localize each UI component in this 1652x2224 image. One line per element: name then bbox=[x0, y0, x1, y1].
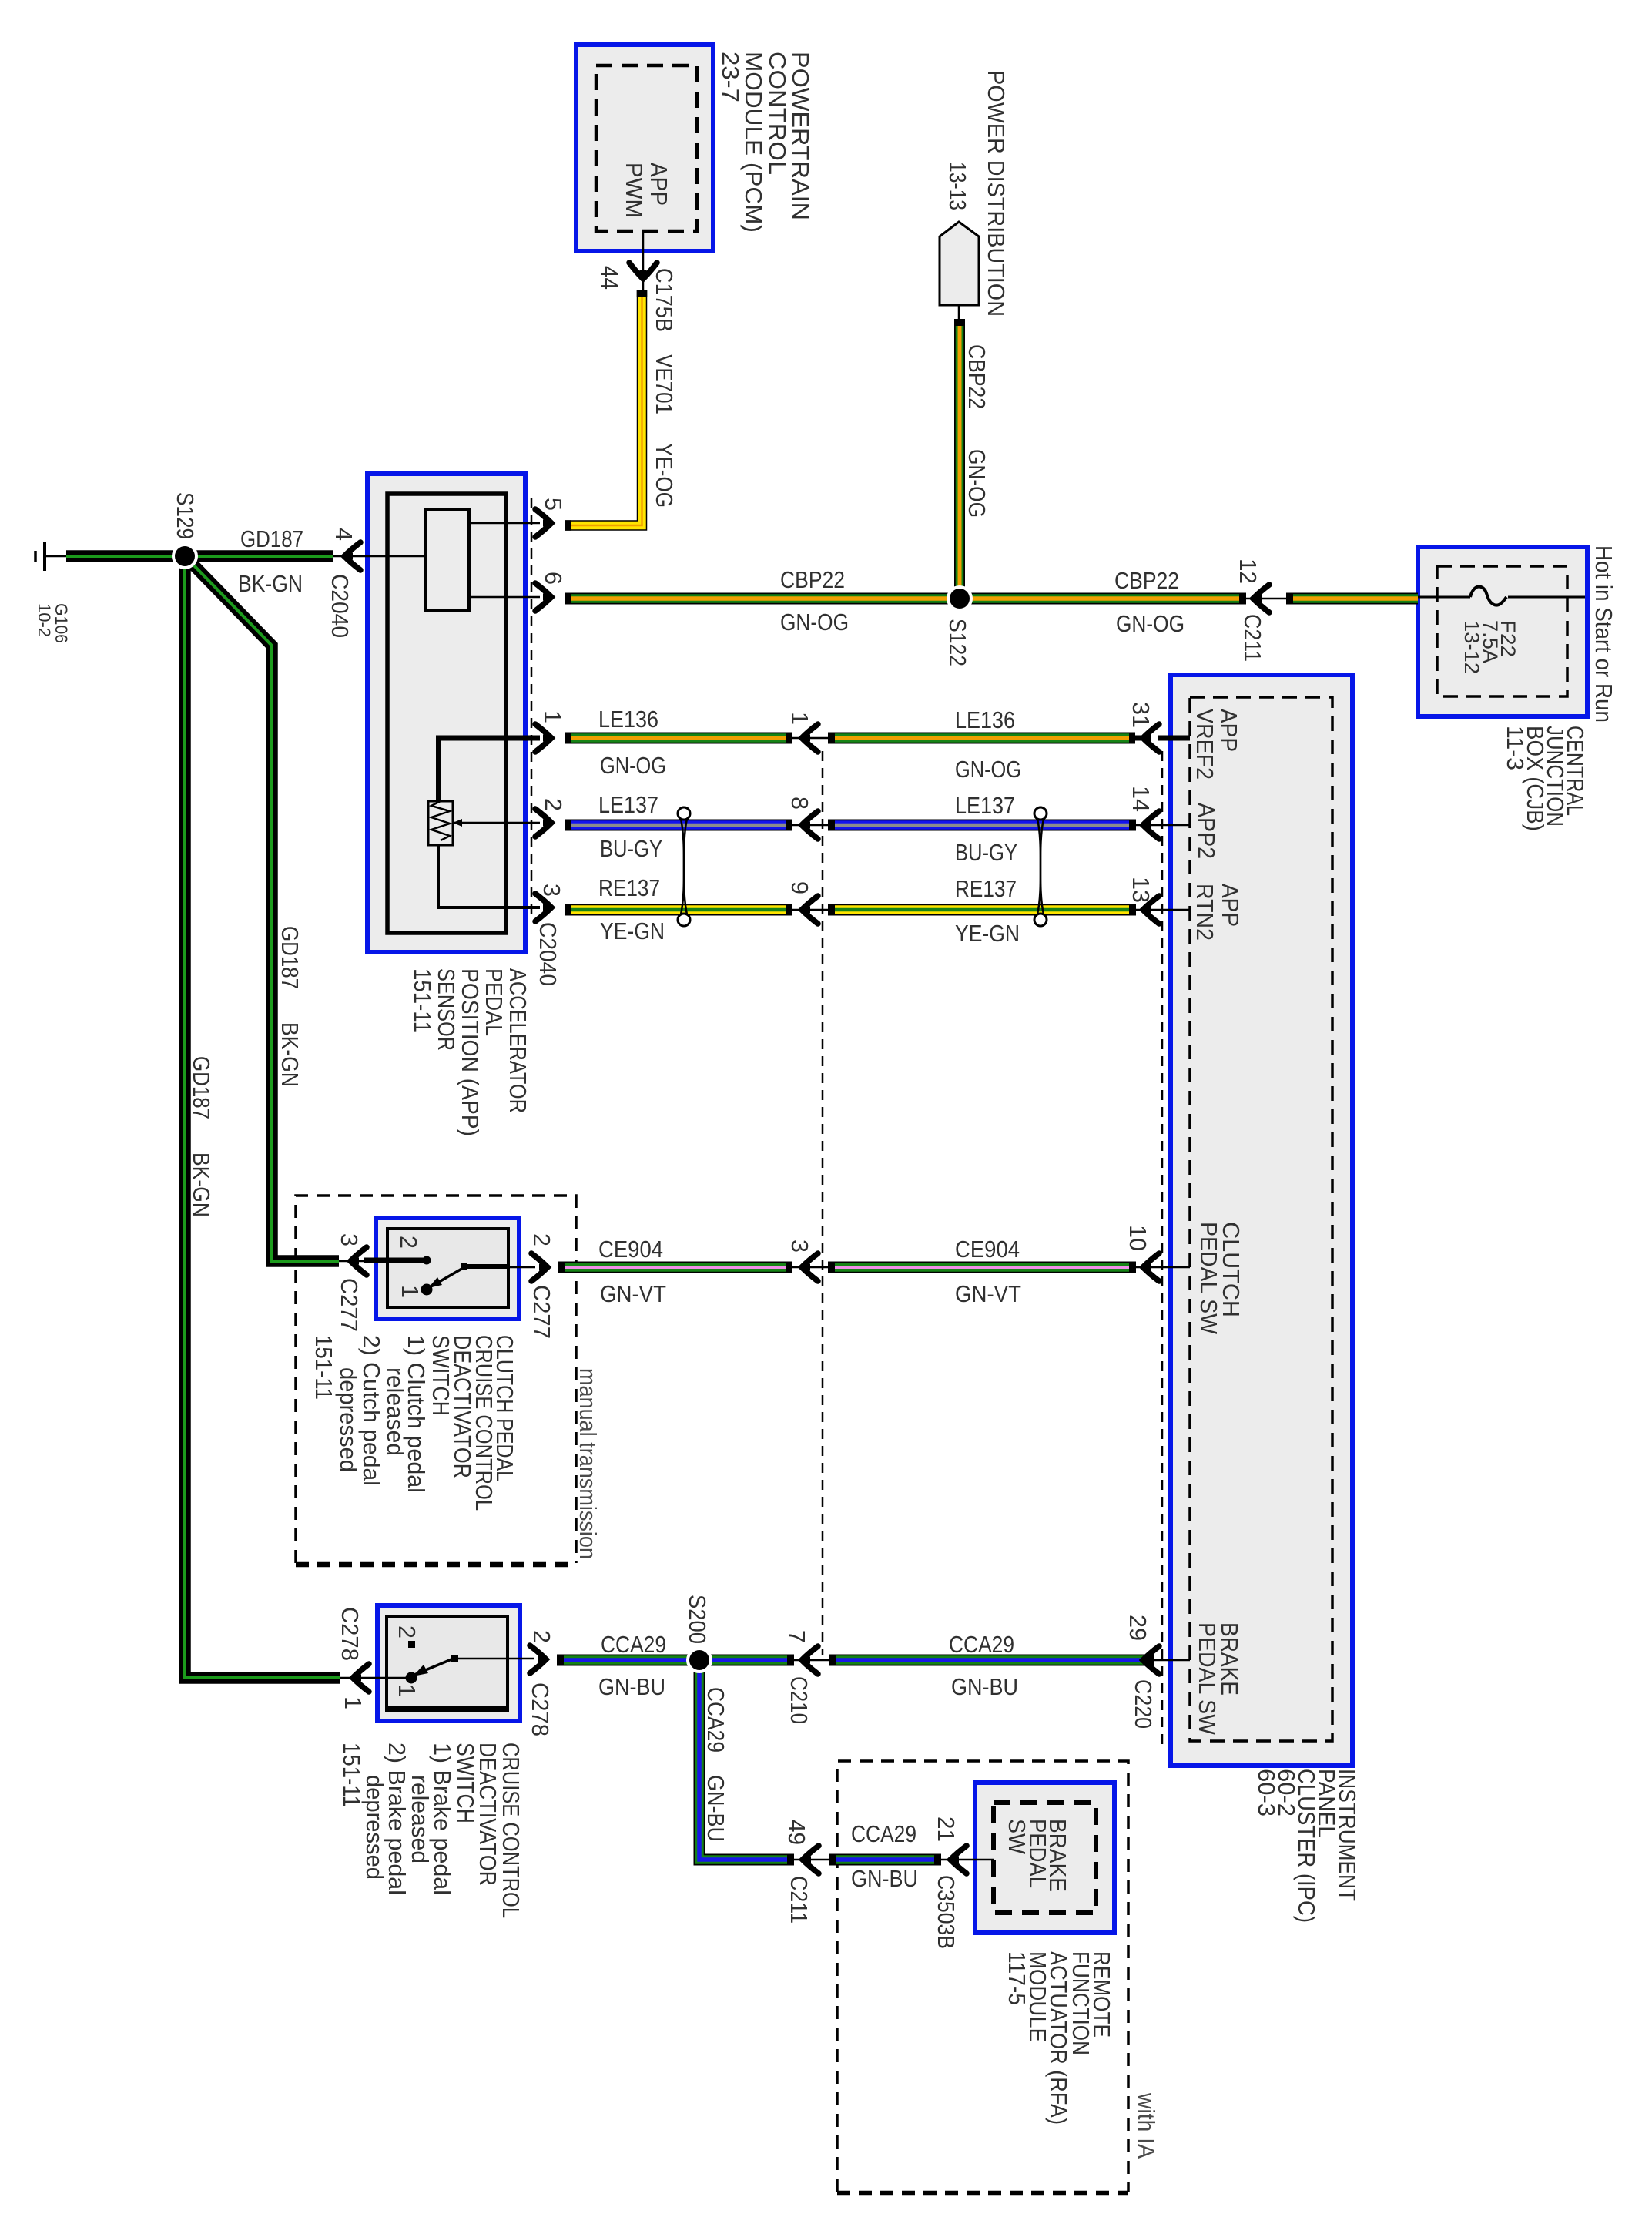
svg-text:GN-BU: GN-BU bbox=[598, 1674, 665, 1700]
svg-text:POSITION (APP): POSITION (APP) bbox=[457, 968, 483, 1136]
svg-text:60-3: 60-3 bbox=[1253, 1769, 1279, 1816]
label: LE136 GN-OG left bbox=[598, 706, 666, 779]
svg-text:PEDAL: PEDAL bbox=[481, 968, 507, 1036]
svg-text:BU-GY: BU-GY bbox=[600, 836, 662, 862]
svg-text:VE701: VE701 bbox=[651, 354, 677, 414]
label: IPC signal names bbox=[1191, 709, 1244, 1735]
label: C210 pins 1 8 9 3 7 and C210 bbox=[783, 712, 813, 1724]
connector arrow IPC pin 13 bbox=[1133, 896, 1190, 924]
wire RE137 YE-GN left segment (APP 3 to C210) bbox=[565, 904, 792, 916]
twisted pair symbol left bbox=[678, 807, 690, 926]
svg-text:PWM: PWM bbox=[621, 163, 647, 218]
svg-text:23-7: 23-7 bbox=[717, 52, 743, 102]
label: pin 12 C211 bbox=[1235, 559, 1265, 662]
label: clutch switch pins 3 C277 2 1 2 C277 bbox=[336, 1233, 555, 1339]
APP sensor internal wires bbox=[367, 523, 540, 909]
svg-text:BK-GN: BK-GN bbox=[276, 1022, 303, 1087]
svg-text:3: 3 bbox=[538, 884, 565, 897]
wire CCA29 GN-BU (C210 to IPC 29) bbox=[829, 1655, 1154, 1666]
svg-text:GD187: GD187 bbox=[276, 926, 303, 989]
svg-text:YE-GN: YE-GN bbox=[955, 921, 1020, 947]
APP sensor box: ACCELERATOR PEDAL POSITION SENSOR bbox=[367, 474, 525, 952]
connector arrow C210 pin 3 bbox=[789, 1253, 828, 1281]
svg-text:13: 13 bbox=[1128, 877, 1154, 903]
connector arrow C2040 pin 5 bbox=[535, 509, 551, 537]
svg-text:C211: C211 bbox=[1239, 614, 1265, 662]
svg-text:C2040: C2040 bbox=[327, 574, 353, 638]
connector arrow C210 pin 9 bbox=[789, 896, 828, 924]
svg-text:1: 1 bbox=[394, 1684, 420, 1697]
svg-text:CCA29: CCA29 bbox=[949, 1632, 1014, 1658]
SW2 contacts and lever bbox=[365, 1641, 534, 1684]
svg-text:RTN2: RTN2 bbox=[1191, 884, 1218, 941]
svg-text:S200: S200 bbox=[684, 1595, 710, 1644]
PCM pin 44 lead and connector arrow C175B bbox=[629, 231, 657, 290]
label: CBP22 GN-OG left of S122 bbox=[780, 567, 849, 636]
svg-text:CBP22: CBP22 bbox=[963, 344, 990, 409]
label: splice S200 and down leg CCA29 GN-BU bbox=[684, 1595, 729, 1842]
CJB: CENTRAL JUNCTION BOX bbox=[1418, 547, 1587, 716]
svg-text:CE904: CE904 bbox=[955, 1236, 1020, 1263]
label: CLUTCH PEDAL CRUISE CONTROL DEACTIVATOR SWITCH block bbox=[310, 1335, 518, 1511]
svg-text:12: 12 bbox=[1235, 559, 1261, 584]
connector arrow C210 pin 1 bbox=[789, 724, 828, 752]
svg-text:POWER DISTRIBUTION: POWER DISTRIBUTION bbox=[983, 70, 1009, 317]
svg-text:SW: SW bbox=[1004, 1819, 1030, 1854]
svg-text:44: 44 bbox=[596, 266, 622, 290]
svg-text:RE137: RE137 bbox=[598, 875, 660, 901]
svg-text:13-12: 13-12 bbox=[1460, 620, 1483, 674]
svg-text:GN-BU: GN-BU bbox=[702, 1775, 729, 1842]
svg-text:manual transmission: manual transmission bbox=[575, 1368, 601, 1559]
label: pin 44 and C175B VE701 YE-OG bbox=[596, 266, 677, 508]
svg-text:GN-VT: GN-VT bbox=[955, 1281, 1021, 1307]
label: pin 49 C211 bbox=[783, 1820, 812, 1924]
svg-text:C210: C210 bbox=[786, 1676, 812, 1724]
svg-text:CBP22: CBP22 bbox=[780, 567, 845, 593]
connector arrow C2040 pin 2 bbox=[535, 809, 551, 837]
connector arrow C211 pin 49 bbox=[791, 1846, 829, 1873]
wire CCA29 GN-BU (cruise switch 2 through S200 to C210 7) bbox=[557, 1655, 794, 1666]
wire LE136 GN-OG left segment (APP 1 to C210) bbox=[565, 733, 792, 744]
svg-text:SENSOR: SENSOR bbox=[433, 968, 459, 1051]
svg-text:C220: C220 bbox=[1130, 1679, 1156, 1729]
svg-text:CCA29: CCA29 bbox=[601, 1632, 666, 1658]
connector arrow C278 pin 1 bbox=[340, 1664, 369, 1692]
svg-text:PEDAL SW: PEDAL SW bbox=[1195, 1222, 1221, 1334]
svg-text:2: 2 bbox=[395, 1236, 421, 1249]
label: GD187 BK-GN horizontal wire bbox=[238, 526, 303, 597]
svg-text:151-11: 151-11 bbox=[310, 1335, 337, 1400]
svg-text:YE-OG: YE-OG bbox=[651, 443, 677, 508]
svg-text:11-3: 11-3 bbox=[1502, 726, 1528, 770]
svg-text:10-2: 10-2 bbox=[35, 603, 54, 637]
wire CBP22 GN-OG vertical (power distribution to S122) bbox=[954, 319, 965, 599]
svg-text:3: 3 bbox=[786, 1239, 813, 1253]
svg-text:LE137: LE137 bbox=[598, 792, 658, 818]
label: REMOTE FUNCTION ACTUATOR (RFA) MODULE 117-5 bbox=[1004, 1951, 1114, 2125]
svg-text:29: 29 bbox=[1124, 1615, 1151, 1641]
svg-text:LE137: LE137 bbox=[955, 793, 1015, 819]
label: pin 21 C3503B bbox=[933, 1816, 959, 1949]
label: CBP22 GN-OG vertical wire bbox=[963, 344, 990, 518]
svg-text:BK-GN: BK-GN bbox=[238, 571, 303, 597]
svg-text:MODULE (PCM): MODULE (PCM) bbox=[740, 52, 766, 233]
connector arrow C211 pin 12 bbox=[1243, 585, 1286, 612]
label: LE136 GN-OG right bbox=[955, 707, 1021, 783]
connector C210 dashed line bbox=[822, 751, 824, 1655]
svg-text:YE-GN: YE-GN bbox=[600, 918, 665, 944]
svg-text:CCA29: CCA29 bbox=[851, 1821, 916, 1847]
RFA: REMOTE FUNCTION ACTUATOR module box bbox=[975, 1783, 1114, 1933]
svg-text:C2040: C2040 bbox=[534, 922, 561, 986]
label: CCA29 GN-BU bottom bbox=[851, 1821, 918, 1892]
connector arrow C210 pin 7 bbox=[791, 1646, 829, 1674]
wire GD187 BK-GN (S129 diagonal down to clutch switch C277 3) bbox=[190, 562, 339, 1261]
connector arrow C2040 pin 1 bbox=[535, 724, 551, 752]
wire GD187 BK-GN (S129 down to cruise switch C278 1) bbox=[185, 562, 340, 1678]
svg-text:8: 8 bbox=[786, 797, 813, 810]
svg-text:ACCELERATOR: ACCELERATOR bbox=[504, 968, 531, 1113]
svg-text:31: 31 bbox=[1128, 702, 1154, 728]
svg-text:S122: S122 bbox=[944, 619, 970, 666]
wire LE136 GN-OG right segment (C210 to IPC 31) bbox=[828, 733, 1135, 744]
label: CE904 GN-VT right bbox=[955, 1236, 1021, 1307]
connector arrow C3503B pin 21 bbox=[938, 1846, 994, 1873]
svg-text:BK-GN: BK-GN bbox=[188, 1152, 214, 1217]
svg-text:CONTROL: CONTROL bbox=[764, 52, 790, 175]
svg-text:21: 21 bbox=[933, 1816, 959, 1842]
connector arrow IPC pin 14 bbox=[1133, 811, 1190, 839]
svg-text:GN-OG: GN-OG bbox=[600, 753, 666, 779]
svg-text:GN-BU: GN-BU bbox=[951, 1674, 1018, 1700]
svg-text:APP: APP bbox=[1217, 884, 1243, 927]
svg-text:POWERTRAIN: POWERTRAIN bbox=[787, 52, 813, 220]
label: GD187 BK-GN on diagonal branch bbox=[276, 926, 303, 1087]
label: CRUISE CONTROL DEACTIVATOR SWITCH block bbox=[338, 1743, 524, 1918]
svg-text:LE136: LE136 bbox=[598, 706, 658, 733]
svg-text:GN-OG: GN-OG bbox=[955, 756, 1021, 783]
connector arrow C210 pin 8 bbox=[789, 811, 828, 839]
label: APP PWM inside PCM bbox=[621, 163, 672, 218]
cruise control deactivator switch SW2 box bbox=[377, 1605, 520, 1721]
label: ACCELERATOR PEDAL POSITION (APP) SENSOR 151-11 bbox=[409, 968, 531, 1136]
splice S129 bbox=[172, 543, 198, 569]
label: IPC pins 31 14 13 10 29 C220 bbox=[1124, 702, 1156, 1729]
svg-text:C211: C211 bbox=[786, 1876, 812, 1924]
label: POWER DISTRIBUTION 13-13 bbox=[944, 70, 1009, 317]
svg-text:GD187: GD187 bbox=[240, 526, 303, 552]
svg-text:2: 2 bbox=[528, 1630, 555, 1643]
connector arrow C2040 pin 3 bbox=[535, 894, 551, 921]
label: APP sensor pins 5 6 1 2 3 and C2040 bbox=[534, 498, 566, 986]
IPC: INSTRUMENT PANEL CLUSTER box bbox=[1171, 675, 1352, 1766]
label: INSTRUMENT PANEL CLUSTER (IPC) 60-2 60-3 bbox=[1253, 1769, 1360, 1923]
label: GD187 BK-GN on long vertical branch bbox=[188, 1056, 214, 1217]
wire CCA29 GN-BU (C211 to C3503B 21) bbox=[829, 1854, 941, 1866]
connector C2040 dashed line bbox=[531, 498, 533, 917]
svg-text:BU-GY: BU-GY bbox=[955, 840, 1017, 866]
label: RE137 YE-GN right bbox=[955, 876, 1020, 947]
fuse F22 7.5A inside CJB bbox=[1418, 587, 1585, 605]
wire LE137 BU-GY right segment (C210 to IPC 14) bbox=[828, 820, 1136, 831]
svg-text:GN-OG: GN-OG bbox=[963, 449, 990, 518]
svg-text:LE136: LE136 bbox=[955, 707, 1015, 733]
svg-text:2: 2 bbox=[394, 1625, 420, 1639]
label: CE904 GN-VT left bbox=[598, 1236, 666, 1307]
svg-text:117-5: 117-5 bbox=[1004, 1951, 1030, 2005]
svg-text:10: 10 bbox=[1124, 1225, 1151, 1251]
svg-text:3: 3 bbox=[336, 1233, 362, 1246]
connector arrow IPC pin 29 (C220) bbox=[1143, 1646, 1190, 1674]
wire LE137 BU-GY left segment (APP 2 to C210) bbox=[565, 820, 792, 831]
potentiometer R1 inside APP sensor bbox=[428, 801, 462, 845]
svg-text:2: 2 bbox=[540, 798, 566, 811]
connector arrow C277 pin 3 bbox=[339, 1247, 367, 1275]
svg-text:with IA: with IA bbox=[1133, 2092, 1159, 2159]
twisted pair symbol right bbox=[1034, 807, 1047, 926]
svg-text:C278: C278 bbox=[337, 1607, 363, 1661]
svg-text:5: 5 bbox=[540, 498, 566, 511]
svg-text:SWITCH: SWITCH bbox=[427, 1335, 454, 1416]
connector arrow C2040 pin 4 bbox=[333, 542, 367, 570]
connector arrow C278 pin 2 bbox=[530, 1645, 546, 1673]
label: POWERTRAIN CONTROL MODULE (PCM) 23-7 bbox=[717, 52, 813, 233]
svg-text:GN-VT: GN-VT bbox=[600, 1281, 666, 1307]
svg-text:1: 1 bbox=[786, 712, 813, 725]
with IA dashed box bbox=[837, 1761, 1128, 2193]
svg-text:RE137: RE137 bbox=[955, 876, 1017, 902]
label: RE137 YE-GN left bbox=[598, 875, 665, 944]
svg-text:SWITCH: SWITCH bbox=[452, 1743, 478, 1823]
svg-text:CRUISE CONTROL: CRUISE CONTROL bbox=[498, 1743, 524, 1918]
svg-text:S129: S129 bbox=[172, 492, 198, 539]
svg-text:APP2: APP2 bbox=[1193, 803, 1219, 859]
svg-text:7: 7 bbox=[783, 1630, 809, 1643]
label: CCA29 GN-BU left bbox=[598, 1632, 666, 1700]
svg-text:PEDAL SW: PEDAL SW bbox=[1194, 1622, 1220, 1735]
svg-text:APP: APP bbox=[1215, 709, 1242, 752]
clutch pedal cruise control deactivator switch SW1 box bbox=[376, 1218, 519, 1319]
label: CBP22 GN-OG right of S122 bbox=[1114, 568, 1185, 637]
svg-text:2) Cutch pedal: 2) Cutch pedal bbox=[358, 1335, 384, 1486]
connector arrow C2040 pin 6 bbox=[535, 583, 551, 611]
svg-text:GN-OG: GN-OG bbox=[780, 609, 849, 636]
PCM U1: POWERTRAIN CONTROL MODULE box bbox=[576, 45, 713, 251]
svg-text:VREF2: VREF2 bbox=[1191, 709, 1218, 780]
svg-text:1: 1 bbox=[539, 710, 565, 723]
svg-text:GN-OG: GN-OG bbox=[1116, 611, 1185, 637]
svg-text:1: 1 bbox=[397, 1285, 423, 1298]
label: ground G106 10-2 bbox=[35, 603, 71, 643]
svg-text:APP: APP bbox=[645, 163, 672, 206]
label: CCA29 GN-BU right bbox=[949, 1632, 1018, 1700]
svg-text:GN-BU: GN-BU bbox=[851, 1866, 918, 1892]
svg-text:depressed: depressed bbox=[361, 1775, 387, 1880]
wire CE904 GN-VT left segment (clutch switch to C210 3) bbox=[558, 1262, 792, 1273]
svg-text:1: 1 bbox=[340, 1696, 366, 1709]
connector arrow IPC pin 10 bbox=[1133, 1253, 1190, 1281]
connector arrow C277 pin 2 bbox=[531, 1253, 548, 1281]
svg-text:13-13: 13-13 bbox=[944, 162, 970, 210]
svg-text:Hot in Start or Run: Hot in Start or Run bbox=[1590, 545, 1617, 723]
power distribution symbol (pentagon) bbox=[940, 222, 979, 319]
svg-text:4: 4 bbox=[330, 528, 357, 541]
wire VE701 YE-OG (PCM 44 to APP 5) bbox=[565, 290, 647, 531]
splice S200 bbox=[686, 1647, 712, 1673]
svg-text:released: released bbox=[407, 1775, 433, 1863]
svg-text:49: 49 bbox=[783, 1820, 809, 1845]
label: LE137 BU-GY right bbox=[955, 793, 1017, 866]
svg-text:CCA29: CCA29 bbox=[702, 1687, 729, 1753]
svg-text:C278: C278 bbox=[527, 1682, 553, 1736]
svg-text:GD187: GD187 bbox=[188, 1056, 214, 1119]
wire CBP22 GN-OG (C211 to CJB) bbox=[1286, 593, 1418, 605]
svg-text:2: 2 bbox=[528, 1233, 555, 1246]
wire RE137 YE-GN right segment (C210 to IPC 13) bbox=[828, 904, 1136, 916]
label: BRAKE PEDAL SW inside RFA bbox=[1004, 1819, 1071, 1892]
svg-text:6: 6 bbox=[540, 572, 566, 585]
label: fuse F22 7.5A 13-12 bbox=[1460, 620, 1520, 674]
svg-text:C175B: C175B bbox=[651, 268, 677, 332]
svg-text:C277: C277 bbox=[336, 1278, 362, 1332]
label: pin 4 C2040 bbox=[327, 528, 357, 638]
connector C220 dashed line bbox=[1161, 751, 1164, 1747]
splice S122 bbox=[947, 585, 973, 612]
svg-text:C277: C277 bbox=[528, 1285, 555, 1339]
svg-text:151-11: 151-11 bbox=[338, 1743, 364, 1807]
svg-text:CE904: CE904 bbox=[598, 1236, 663, 1263]
label: LE137 BU-GY left bbox=[598, 792, 662, 862]
svg-text:151-11: 151-11 bbox=[409, 968, 435, 1033]
wire CBP22 GN-OG horizontal (APP 6 to C211) bbox=[565, 593, 1246, 605]
svg-text:depressed: depressed bbox=[335, 1367, 361, 1472]
svg-text:CBP22: CBP22 bbox=[1114, 568, 1179, 594]
connector arrow IPC pin 31 bbox=[1133, 724, 1190, 752]
ground G106 symbol bbox=[35, 542, 66, 571]
manual transmission dashed box bbox=[296, 1196, 576, 1565]
svg-text:released: released bbox=[382, 1367, 408, 1456]
SW1 contacts and lever bbox=[364, 1256, 535, 1296]
wire GD187 BK-GN (ground G106 through S129 to APP 4) bbox=[66, 550, 333, 562]
svg-text:14: 14 bbox=[1128, 786, 1154, 812]
label: cruise switch pins C278 1 2 1 2 C278 bbox=[337, 1607, 555, 1736]
label: CENTRAL JUNCTION BOX (CJB) 11-3 bbox=[1502, 726, 1588, 831]
wire CE904 GN-VT right segment (C210 to IPC 10) bbox=[828, 1262, 1136, 1273]
svg-text:9: 9 bbox=[786, 881, 813, 894]
wire CCA29 GN-BU (S200 down leg to C211 49) bbox=[699, 1665, 794, 1866]
svg-text:C3503B: C3503B bbox=[933, 1875, 959, 1949]
